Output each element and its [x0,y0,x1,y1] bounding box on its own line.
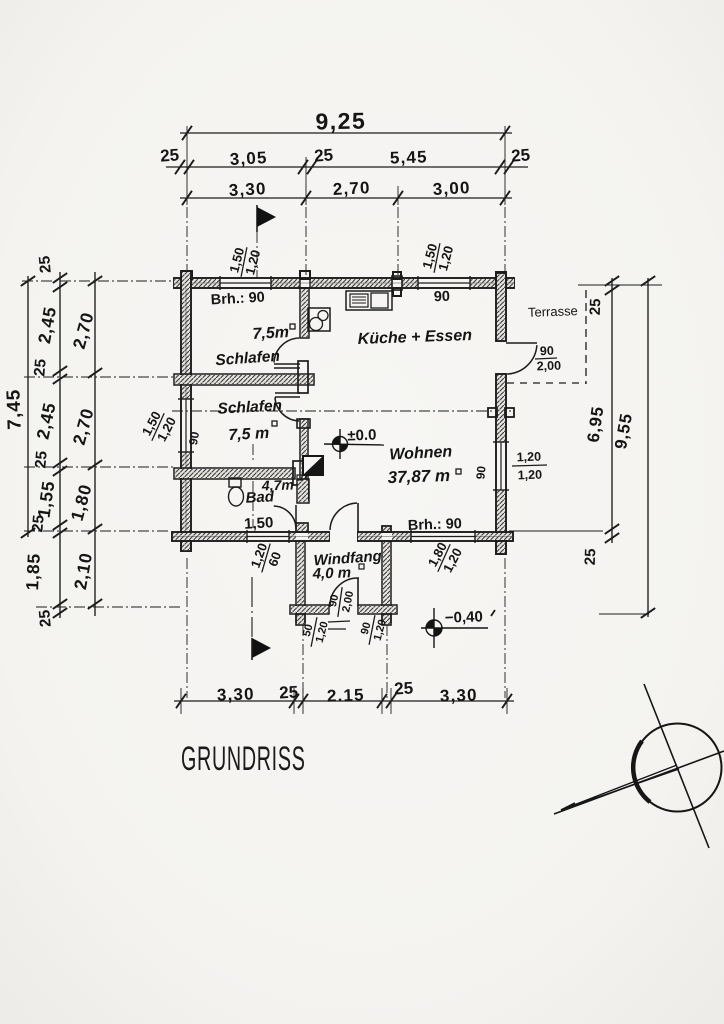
svg-text:90: 90 [186,430,202,446]
svg-text:Schlafen: Schlafen [217,397,282,417]
svg-text:2.15: 2.15 [327,685,366,705]
svg-text:3,05: 3,05 [229,148,268,169]
svg-text:3,30: 3,30 [217,684,256,704]
svg-text:1,20: 1,20 [516,450,541,465]
svg-text:7,5m: 7,5m [252,324,289,343]
svg-text:90: 90 [473,465,488,480]
svg-text:25: 25 [582,548,600,565]
svg-text:25: 25 [511,145,531,165]
svg-text:25: 25 [279,683,299,703]
svg-text:25: 25 [36,609,54,628]
svg-text:90: 90 [540,344,554,358]
svg-text:25: 25 [36,255,54,274]
svg-text:±0.0: ±0.0 [347,427,377,445]
svg-text:4,0 m: 4,0 m [311,564,351,582]
svg-text:25: 25 [394,679,414,699]
svg-text:−0,40: −0,40 [445,608,484,626]
svg-text:25: 25 [29,514,47,533]
svg-text:GRUNDRISS: GRUNDRISS [181,739,306,777]
svg-text:3,00: 3,00 [432,178,471,199]
svg-text:4,7m: 4,7m [261,476,294,493]
svg-text:Brh.: 90: Brh.: 90 [210,290,265,309]
svg-text:7,5 m: 7,5 m [228,425,270,444]
svg-text:25: 25 [32,450,50,469]
svg-text:Terrasse: Terrasse [528,303,578,320]
svg-text:1,85: 1,85 [22,553,44,591]
svg-text:9,25: 9,25 [315,108,366,135]
svg-text:25: 25 [31,358,49,377]
svg-text:2,70: 2,70 [332,178,371,199]
svg-text:1,50: 1,50 [244,514,274,533]
svg-text:25: 25 [160,145,180,165]
svg-text:7,45: 7,45 [3,388,25,430]
svg-text:3,30: 3,30 [440,685,479,705]
svg-text:37,87 m: 37,87 m [387,466,450,487]
svg-text:25: 25 [314,145,334,165]
svg-text:1,20: 1,20 [517,468,542,483]
svg-text:Wohnen: Wohnen [389,443,453,463]
svg-text:Brh.: 90: Brh.: 90 [408,516,463,534]
svg-text:90: 90 [434,289,451,306]
svg-text:25: 25 [587,298,605,315]
svg-text:3,30: 3,30 [228,179,267,200]
svg-text:5,45: 5,45 [390,147,429,167]
svg-text:2,00: 2,00 [536,359,561,374]
